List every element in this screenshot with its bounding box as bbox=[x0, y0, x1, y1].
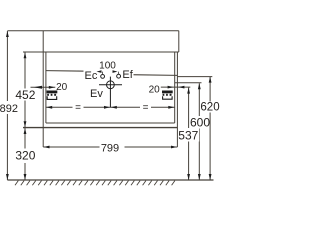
right drawer slide bracket bbox=[162, 91, 173, 100]
countertop top line bbox=[7, 30, 178, 32]
arrow 452 top bbox=[24, 52, 27, 58]
floor hatching bbox=[15, 181, 175, 186]
cabinet inner right edge bbox=[174, 52, 176, 123]
svg-text:892: 892 bbox=[0, 103, 18, 115]
dim line 452/320 bbox=[24, 52, 26, 180]
svg-text:620: 620 bbox=[200, 102, 219, 114]
arrow 620 bottom bbox=[209, 174, 212, 180]
arrow 20 right inner bbox=[168, 86, 174, 89]
arrow 320 bottom bbox=[24, 174, 27, 180]
arrow equal left inner bbox=[104, 106, 110, 109]
arrow 100 right bbox=[113, 70, 118, 73]
arrowheads bbox=[6, 31, 212, 180]
arrow 892 top bbox=[6, 31, 9, 37]
cabinet outer right edge bbox=[176, 52, 178, 147]
dim line 892 bbox=[6, 31, 8, 180]
cabinet outer left edge bbox=[42, 52, 44, 147]
svg-text:=: = bbox=[143, 103, 149, 114]
countertop right edge bbox=[178, 31, 180, 52]
cabinet outer bottom line bbox=[23, 127, 177, 129]
svg-text:20: 20 bbox=[56, 82, 68, 93]
svg-text:Ec: Ec bbox=[85, 70, 98, 82]
Ec connection circle bbox=[101, 75, 105, 79]
svg-text:320: 320 bbox=[15, 149, 35, 163]
white masks for text over lines bbox=[0, 67, 219, 164]
svg-text:Ef: Ef bbox=[122, 69, 133, 81]
arrow 20 left inward bbox=[49, 86, 55, 89]
arrow 799 left bbox=[44, 146, 50, 149]
arrow 20 right outer bbox=[178, 86, 184, 89]
leader line Ec-Ef bbox=[46, 70, 88, 73]
svg-text:Ev: Ev bbox=[90, 88, 103, 100]
Ev drain crosshair circle bbox=[99, 77, 122, 108]
cabinet inner left edge bbox=[45, 52, 47, 123]
tick Ec bbox=[102, 72, 104, 75]
left 20 dim line bbox=[31, 86, 56, 88]
floor line bbox=[7, 179, 213, 181]
svg-text:537: 537 bbox=[178, 129, 198, 143]
arrow 20 left outward bbox=[34, 86, 43, 89]
extension line 537 and right 20 dim bbox=[161, 86, 191, 88]
svg-text:452: 452 bbox=[15, 88, 35, 102]
arrow 320 top bbox=[24, 128, 27, 134]
svg-text:799: 799 bbox=[101, 142, 119, 154]
arrow 100 left bbox=[97, 70, 102, 73]
tick Ef bbox=[118, 72, 120, 75]
arrow 452 bottom bbox=[24, 121, 27, 127]
arrow equal right outer bbox=[168, 106, 174, 109]
countertop bottom line bbox=[23, 51, 179, 53]
arrow 600 bottom bbox=[198, 174, 201, 180]
arrow 600 top bbox=[198, 83, 201, 89]
Ef connection circle bbox=[117, 74, 121, 78]
dim line 620 bbox=[209, 77, 211, 180]
arrow equal right inner bbox=[111, 106, 117, 109]
svg-text:600: 600 bbox=[190, 115, 210, 129]
arrow 892 bottom bbox=[6, 174, 9, 180]
arrow 620 top bbox=[209, 77, 212, 83]
cabinet inner bottom line bbox=[46, 122, 175, 124]
arrow 799 right bbox=[171, 146, 177, 149]
extension line 600 bbox=[175, 82, 202, 84]
equal spacing dim line bbox=[46, 106, 175, 108]
dimension texts bbox=[0, 88, 220, 163]
dim line 600 bbox=[198, 83, 200, 180]
countertop left edge bbox=[42, 31, 44, 52]
svg-text:20: 20 bbox=[149, 85, 161, 96]
arrow 537 bottom bbox=[187, 174, 190, 180]
arrow equal left outer bbox=[46, 106, 52, 109]
left drawer slide bracket bbox=[47, 91, 58, 100]
arrow 537 top bbox=[187, 88, 190, 94]
svg-text:100: 100 bbox=[99, 60, 116, 71]
dim line 799 bbox=[43, 146, 177, 148]
svg-text:=: = bbox=[75, 103, 81, 114]
extension line 620 bbox=[177, 76, 212, 78]
leader line Ef right segment bbox=[130, 74, 177, 77]
dim line 100 bbox=[97, 71, 118, 73]
dim line 537 bbox=[188, 88, 190, 180]
